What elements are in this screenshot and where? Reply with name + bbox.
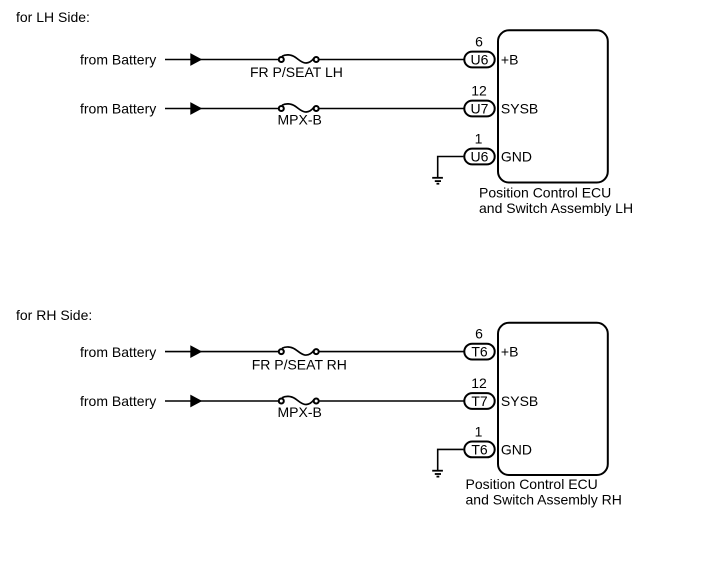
svg-text:and Switch Assembly LH: and Switch Assembly LH <box>479 200 633 216</box>
svg-text:from Battery: from Battery <box>80 393 156 409</box>
svg-text:FR P/SEAT RH: FR P/SEAT RH <box>252 356 347 372</box>
svg-text:from Battery: from Battery <box>80 344 156 360</box>
svg-text:T6: T6 <box>471 344 488 360</box>
svg-text:U6: U6 <box>471 149 489 165</box>
svg-text:T7: T7 <box>471 393 488 409</box>
svg-text:FR P/SEAT LH: FR P/SEAT LH <box>250 64 343 80</box>
svg-text:for LH Side:: for LH Side: <box>16 9 90 25</box>
svg-text:T6: T6 <box>471 442 488 458</box>
svg-text:6: 6 <box>475 326 483 342</box>
svg-text:MPX-B: MPX-B <box>278 112 322 128</box>
svg-text:6: 6 <box>475 34 483 50</box>
svg-text:+B: +B <box>501 52 519 68</box>
svg-text:Position Control ECU: Position Control ECU <box>479 185 611 201</box>
svg-text:SYSB: SYSB <box>501 101 538 117</box>
svg-text:1: 1 <box>475 423 483 439</box>
svg-text:12: 12 <box>471 375 487 391</box>
svg-text:SYSB: SYSB <box>501 393 538 409</box>
svg-text:+B: +B <box>501 344 519 360</box>
svg-text:U7: U7 <box>471 101 489 117</box>
svg-text:U6: U6 <box>471 52 489 68</box>
svg-text:Position Control ECU: Position Control ECU <box>466 476 598 492</box>
svg-text:12: 12 <box>471 83 487 99</box>
svg-text:GND: GND <box>501 149 532 165</box>
svg-text:GND: GND <box>501 441 532 457</box>
svg-text:and Switch Assembly RH: and Switch Assembly RH <box>466 492 622 508</box>
svg-text:from Battery: from Battery <box>80 52 156 68</box>
svg-text:1: 1 <box>475 131 483 147</box>
svg-text:from Battery: from Battery <box>80 101 156 117</box>
svg-text:MPX-B: MPX-B <box>278 404 322 420</box>
svg-text:for RH Side:: for RH Side: <box>16 307 92 323</box>
